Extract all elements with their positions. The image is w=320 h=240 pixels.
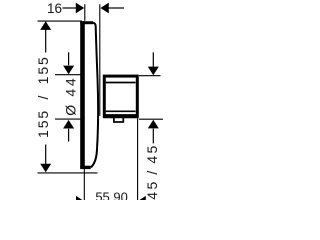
svg-text:44: 44: [62, 76, 78, 97]
svg-text:Ø: Ø: [62, 105, 78, 116]
svg-text:45 / 45: 45 / 45: [144, 143, 160, 199]
svg-text:55,90: 55,90: [95, 189, 128, 200]
svg-text:155 / 155: 155 / 155: [35, 55, 51, 138]
svg-text:16: 16: [47, 1, 62, 16]
